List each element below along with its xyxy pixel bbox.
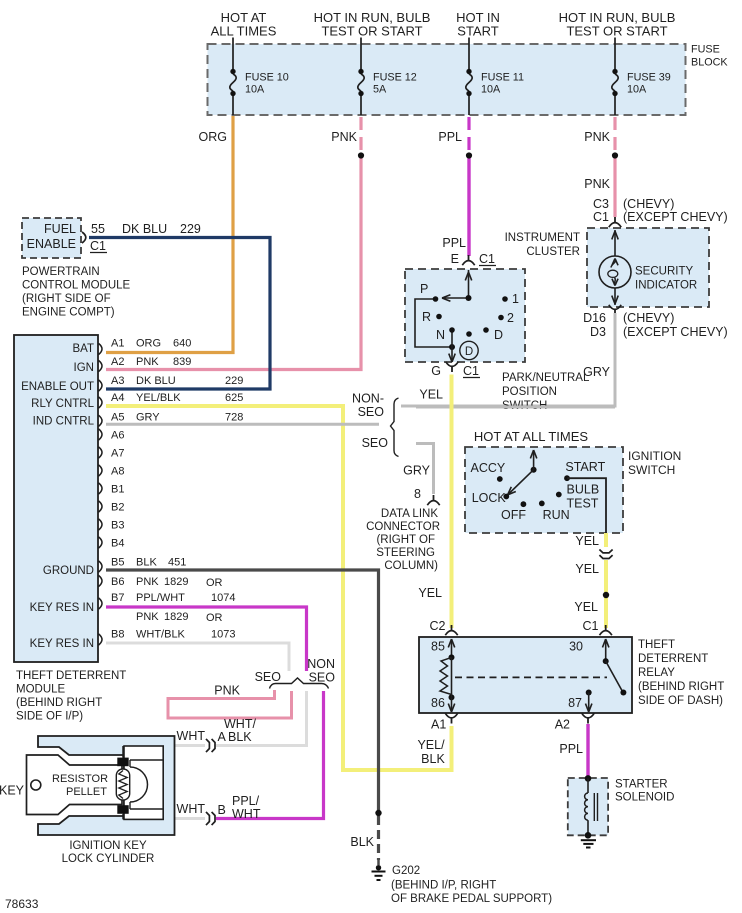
svg-text:POWERTRAIN: POWERTRAIN — [22, 266, 100, 278]
svg-text:PELLET: PELLET — [66, 786, 107, 798]
svg-text:COLUMN): COLUMN) — [384, 560, 438, 572]
svg-text:5A: 5A — [373, 84, 387, 96]
svg-text:8: 8 — [414, 487, 421, 501]
svg-text:1829: 1829 — [164, 576, 188, 588]
svg-text:ORG: ORG — [199, 130, 227, 144]
svg-text:OR: OR — [206, 577, 223, 589]
svg-text:(CHEVY): (CHEVY) — [623, 311, 674, 325]
svg-text:1073: 1073 — [211, 629, 235, 641]
svg-text:C1: C1 — [463, 364, 479, 378]
svg-text:TEST OR START: TEST OR START — [566, 24, 667, 39]
svg-text:START: START — [457, 24, 498, 39]
svg-text:POSITION: POSITION — [502, 386, 557, 398]
svg-text:ORG: ORG — [136, 338, 161, 350]
svg-text:BAT: BAT — [72, 343, 94, 355]
svg-text:OFF: OFF — [501, 508, 526, 522]
svg-text:728: 728 — [225, 412, 243, 424]
svg-text:IND CNTRL: IND CNTRL — [33, 416, 95, 428]
svg-text:DK BLU: DK BLU — [122, 222, 167, 236]
svg-text:BLK: BLK — [350, 835, 374, 849]
svg-text:GROUND: GROUND — [43, 565, 94, 577]
svg-text:B6: B6 — [111, 576, 124, 588]
svg-text:YEL: YEL — [575, 562, 599, 576]
svg-text:(BEHIND RIGHT: (BEHIND RIGHT — [638, 681, 724, 693]
svg-text:IGNITION KEY: IGNITION KEY — [69, 840, 147, 852]
svg-text:LOCK CYLINDER: LOCK CYLINDER — [62, 853, 155, 865]
svg-text:A3: A3 — [111, 375, 124, 387]
svg-text:TEST: TEST — [567, 497, 599, 511]
svg-text:PNK: PNK — [214, 684, 240, 698]
svg-text:A5: A5 — [111, 412, 124, 424]
svg-text:D16: D16 — [583, 311, 606, 325]
svg-text:D3: D3 — [590, 325, 606, 339]
svg-text:THEFT DETERRENT: THEFT DETERRENT — [16, 670, 126, 682]
svg-text:PNK: PNK — [136, 356, 159, 368]
svg-text:87: 87 — [568, 696, 582, 710]
svg-text:1829: 1829 — [164, 611, 188, 623]
svg-text:B3: B3 — [111, 520, 124, 532]
svg-text:WHT: WHT — [232, 807, 261, 821]
svg-text:CONTROL MODULE: CONTROL MODULE — [22, 280, 131, 292]
svg-text:YEL: YEL — [419, 388, 443, 402]
svg-text:A1: A1 — [111, 338, 124, 350]
svg-text:DETERRENT: DETERRENT — [638, 653, 708, 665]
svg-text:PARK/NEUTRAL: PARK/NEUTRAL — [502, 372, 590, 384]
svg-text:P: P — [420, 282, 428, 296]
svg-text:SWITCH: SWITCH — [628, 463, 675, 477]
svg-text:D: D — [465, 346, 473, 358]
svg-text:(EXCEPT CHEVY): (EXCEPT CHEVY) — [623, 325, 728, 339]
svg-text:GRY: GRY — [136, 412, 160, 424]
svg-text:FUSE 39: FUSE 39 — [627, 72, 671, 84]
svg-text:YEL: YEL — [574, 600, 598, 614]
svg-text:RESISTOR: RESISTOR — [52, 773, 108, 785]
svg-text:NON: NON — [307, 657, 335, 671]
svg-text:FUEL: FUEL — [44, 222, 76, 236]
svg-text:YEL/: YEL/ — [417, 738, 445, 752]
svg-text:INSTRUMENT: INSTRUMENT — [505, 232, 580, 244]
svg-text:WHT: WHT — [177, 729, 206, 743]
svg-text:PNK: PNK — [584, 130, 610, 144]
svg-text:FUSE: FUSE — [691, 44, 720, 56]
svg-text:DATA LINK: DATA LINK — [381, 508, 438, 520]
svg-text:625: 625 — [225, 392, 243, 404]
svg-text:PNK: PNK — [331, 130, 357, 144]
svg-text:78633: 78633 — [5, 897, 39, 911]
svg-text:KEY RES IN: KEY RES IN — [30, 638, 94, 650]
svg-text:B7: B7 — [111, 592, 124, 604]
svg-text:WHT: WHT — [177, 802, 206, 816]
svg-text:A4: A4 — [111, 392, 124, 404]
svg-text:B2: B2 — [111, 502, 124, 514]
svg-text:(BEHIND I/P, RIGHT: (BEHIND I/P, RIGHT — [391, 880, 496, 892]
svg-text:BLK: BLK — [228, 730, 252, 744]
svg-text:WHT/BLK: WHT/BLK — [136, 629, 186, 641]
svg-text:10A: 10A — [627, 84, 647, 96]
svg-text:PNK: PNK — [584, 177, 610, 191]
svg-text:FUSE 10: FUSE 10 — [245, 72, 289, 84]
svg-text:A8: A8 — [111, 466, 124, 478]
svg-text:OR: OR — [206, 612, 223, 624]
svg-text:C1: C1 — [583, 619, 599, 633]
svg-text:RELAY: RELAY — [638, 667, 675, 679]
svg-text:CLUSTER: CLUSTER — [526, 246, 580, 258]
svg-text:IGN: IGN — [74, 362, 94, 374]
svg-text:D: D — [494, 328, 503, 342]
svg-text:PPL: PPL — [559, 742, 583, 756]
svg-text:BULB: BULB — [567, 483, 600, 497]
svg-text:640: 640 — [173, 338, 191, 350]
svg-text:(CHEVY): (CHEVY) — [623, 197, 674, 211]
svg-text:C1: C1 — [479, 252, 495, 266]
svg-text:INDICATOR: INDICATOR — [635, 280, 697, 292]
svg-text:FUSE 12: FUSE 12 — [373, 72, 417, 84]
svg-text:START: START — [565, 460, 605, 474]
svg-text:YEL/BLK: YEL/BLK — [136, 392, 181, 404]
svg-text:THEFT: THEFT — [638, 639, 675, 651]
svg-text:ENABLE OUT: ENABLE OUT — [21, 381, 94, 393]
svg-text:WHT/: WHT/ — [224, 717, 256, 731]
svg-text:E: E — [451, 252, 459, 266]
svg-text:B1: B1 — [111, 484, 124, 496]
svg-text:N: N — [436, 328, 445, 342]
svg-text:R: R — [422, 310, 431, 324]
svg-text:(EXCEPT CHEVY): (EXCEPT CHEVY) — [623, 210, 728, 224]
svg-text:SEO: SEO — [309, 671, 336, 685]
svg-text:SOLENOID: SOLENOID — [615, 792, 674, 804]
svg-text:A6: A6 — [111, 430, 124, 442]
svg-text:SEO: SEO — [255, 670, 282, 684]
svg-text:C1: C1 — [593, 210, 609, 224]
svg-text:B4: B4 — [111, 538, 124, 550]
svg-text:STARTER: STARTER — [615, 779, 668, 791]
svg-text:SIDE OF I/P): SIDE OF I/P) — [16, 711, 83, 723]
svg-text:A2: A2 — [555, 718, 570, 732]
svg-text:1: 1 — [512, 292, 519, 306]
svg-text:KEY RES IN: KEY RES IN — [30, 602, 94, 614]
svg-text:C1: C1 — [90, 239, 106, 253]
svg-text:C3: C3 — [593, 197, 609, 211]
svg-text:SIDE OF DASH): SIDE OF DASH) — [638, 695, 723, 707]
svg-text:10A: 10A — [481, 84, 501, 96]
svg-text:KEY: KEY — [0, 784, 25, 798]
svg-text:PPL/: PPL/ — [232, 794, 260, 808]
svg-text:LOCK: LOCK — [472, 491, 507, 505]
svg-text:55: 55 — [91, 222, 105, 236]
svg-text:85: 85 — [431, 640, 445, 654]
svg-text:B5: B5 — [111, 557, 124, 569]
svg-text:SECURITY: SECURITY — [635, 266, 693, 278]
svg-text:229: 229 — [225, 375, 243, 387]
svg-text:A1: A1 — [431, 718, 446, 732]
svg-text:10A: 10A — [245, 84, 265, 96]
svg-text:DK BLU: DK BLU — [136, 375, 176, 387]
svg-text:B8: B8 — [111, 629, 124, 641]
svg-text:PNK: PNK — [136, 576, 159, 588]
svg-text:30: 30 — [569, 640, 583, 654]
svg-text:PNK: PNK — [136, 611, 159, 623]
svg-text:229: 229 — [180, 222, 201, 236]
svg-text:SEO: SEO — [358, 405, 385, 419]
svg-text:451: 451 — [168, 557, 186, 569]
svg-text:NON-: NON- — [352, 392, 384, 406]
svg-text:SEO: SEO — [362, 436, 389, 450]
svg-text:839: 839 — [173, 356, 191, 368]
svg-text:BLK: BLK — [421, 752, 445, 766]
svg-text:G: G — [431, 364, 441, 378]
svg-text:2: 2 — [507, 311, 514, 325]
svg-text:PPL: PPL — [438, 130, 462, 144]
svg-text:A: A — [218, 730, 227, 744]
svg-text:RLY CNTRL: RLY CNTRL — [31, 398, 94, 410]
svg-text:PPL: PPL — [442, 236, 466, 250]
svg-text:1074: 1074 — [211, 592, 235, 604]
svg-text:MODULE: MODULE — [16, 684, 66, 696]
svg-text:PPL/WHT: PPL/WHT — [136, 592, 185, 604]
svg-text:G202: G202 — [392, 865, 420, 877]
svg-text:OF BRAKE PEDAL SUPPORT): OF BRAKE PEDAL SUPPORT) — [391, 893, 552, 905]
svg-text:ENGINE COMPT): ENGINE COMPT) — [22, 307, 115, 319]
svg-text:A7: A7 — [111, 448, 124, 460]
svg-text:IGNITION: IGNITION — [628, 449, 681, 463]
svg-text:CONNECTOR: CONNECTOR — [366, 521, 440, 533]
svg-text:ENABLE: ENABLE — [27, 237, 76, 251]
svg-text:YEL: YEL — [418, 586, 442, 600]
svg-text:ALL TIMES: ALL TIMES — [211, 24, 277, 39]
svg-text:86: 86 — [431, 696, 445, 710]
svg-text:STEERING: STEERING — [376, 547, 435, 559]
svg-text:BLOCK: BLOCK — [691, 57, 728, 69]
svg-text:B: B — [218, 803, 226, 817]
svg-text:ACCY: ACCY — [471, 461, 506, 475]
svg-text:C2: C2 — [430, 619, 446, 633]
svg-text:GRY: GRY — [403, 464, 431, 478]
svg-text:(RIGHT OF: (RIGHT OF — [376, 534, 435, 546]
svg-text:FUSE 11: FUSE 11 — [481, 72, 524, 84]
svg-text:(RIGHT SIDE OF: (RIGHT SIDE OF — [22, 293, 111, 305]
svg-text:(BEHIND RIGHT: (BEHIND RIGHT — [16, 697, 102, 709]
svg-text:BLK: BLK — [136, 557, 157, 569]
svg-text:YEL: YEL — [575, 534, 599, 548]
svg-text:TEST OR START: TEST OR START — [321, 24, 422, 39]
svg-text:HOT AT ALL TIMES: HOT AT ALL TIMES — [474, 429, 588, 444]
svg-text:A2: A2 — [111, 356, 124, 368]
